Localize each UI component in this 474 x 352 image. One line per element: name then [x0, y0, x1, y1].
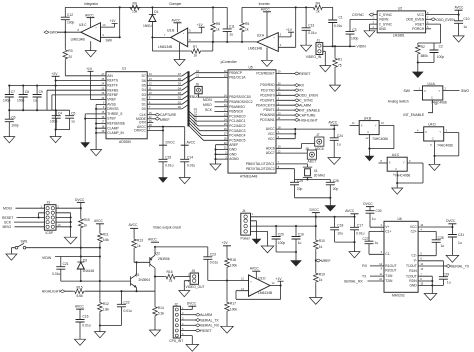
- node SWO flag: [44, 31, 49, 34]
- svg-text:74HC4066: 74HC4066: [431, 100, 447, 104]
- svg-text:100p: 100p: [67, 21, 75, 25]
- wire J6 to PB2: [199, 94, 229, 97]
- wire RSET to R2/C2: [418, 24, 441, 50]
- ground R17: [221, 326, 234, 333]
- ground C14: [179, 178, 190, 184]
- wire XTAL2 node: [276, 169, 330, 180]
- capacitor C29: [418, 261, 443, 286]
- wire U4:C Y wrap: [397, 163, 423, 183]
- wire U4:D Y wrap: [435, 133, 459, 156]
- node C_SYNC flag: [276, 99, 296, 101]
- wire U3:D feedback: [236, 286, 281, 300]
- svg-text:100p: 100p: [278, 241, 286, 245]
- svg-text:0.01u: 0.01u: [308, 31, 316, 35]
- IC U1 AD9280: [106, 72, 147, 139]
- svg-text:SWI: SWI: [106, 39, 112, 43]
- svg-text:J4: J4: [242, 209, 246, 213]
- capacitor C17: [350, 227, 359, 230]
- node SERIAL_TX flag (U6): [418, 265, 447, 267]
- capacitor C21: [60, 257, 62, 282]
- node ODD_EVEN flag: [276, 94, 296, 96]
- svg-text:SERIAL_TX: SERIAL_TX: [200, 318, 219, 322]
- svg-text:GND: GND: [229, 152, 237, 156]
- svg-text:AVCC: AVCC: [129, 223, 139, 227]
- svg-text:100p: 100p: [3, 98, 11, 102]
- wire R4 to C1: [324, 7, 333, 20]
- svg-text:U6: U6: [398, 217, 402, 221]
- wire U2 VCC: [426, 14, 459, 16]
- resistor R5: [241, 7, 243, 42]
- svg-text:C22: C22: [124, 301, 130, 305]
- svg-text:CSYNC: CSYNC: [352, 13, 364, 17]
- wire REFTS: [56, 80, 106, 82]
- svg-text:R9: R9: [133, 2, 137, 6]
- wire bottom rail of cap bank: [9, 109, 69, 111]
- wire AREF/GND/GND/AGND to ground: [216, 145, 229, 164]
- svg-text:5.6k: 5.6k: [103, 238, 110, 242]
- svg-text:R1OUT: R1OUT: [385, 264, 396, 268]
- svg-text:REFTF: REFTF: [107, 84, 118, 88]
- svg-text:PB0/ICP: PB0/ICP: [229, 71, 242, 75]
- svg-text:DVCC: DVCC: [310, 208, 320, 212]
- svg-text:DEBUG: DEBUG: [187, 95, 199, 99]
- svg-text:5.6k: 5.6k: [77, 294, 84, 298]
- wire REFBS: [47, 90, 106, 110]
- svg-text:J5: J5: [192, 269, 196, 273]
- wire vertical R11 column: [99, 248, 101, 281]
- svg-text:AIN: AIN: [107, 74, 113, 78]
- svg-text:1k: 1k: [319, 245, 323, 249]
- svg-text:C_SYNC: C_SYNC: [379, 22, 393, 26]
- wire clamper output: [152, 36, 170, 38]
- capacitor C7: [8, 86, 10, 111]
- svg-text:VIDEO_OUT: VIDEO_OUT: [186, 285, 205, 289]
- wire feedback vertical to pin9: [119, 7, 121, 37]
- wire U3:D output: [270, 285, 281, 287]
- wire U4:B X stub: [350, 124, 360, 126]
- svg-text:C8: C8: [25, 90, 29, 94]
- ground R14: [150, 330, 161, 336]
- switch U4:D 74HC4066: [424, 127, 444, 141]
- svg-text:MREF: MREF: [160, 118, 170, 122]
- svg-text:CLAMP: CLAMP: [107, 126, 119, 130]
- ground op-amp U3:C: [90, 41, 92, 50]
- svg-text:+2V: +2V: [222, 241, 229, 245]
- svg-text:Y: Y: [375, 124, 377, 128]
- node SWO flag (switch output): [443, 90, 460, 92]
- svg-text:20p: 20p: [333, 187, 339, 191]
- svg-text:C5: C5: [71, 112, 75, 116]
- resistor R3: [64, 32, 66, 76]
- wire collector to R16: [155, 276, 165, 278]
- svg-text:INT_ENABLE: INT_ENABLE: [299, 109, 320, 113]
- svg-text:X: X: [424, 89, 426, 93]
- svg-text:LM6134B: LM6134B: [248, 46, 263, 50]
- svg-text:C30: C30: [376, 209, 382, 213]
- svg-text:LM1881: LM1881: [393, 34, 405, 38]
- wire top rail segment A: [65, 6, 227, 8]
- wire U6 T2OUT/R2IN/GND to ground: [418, 276, 432, 293]
- svg-text:1k: 1k: [137, 244, 141, 248]
- node HIGHLIGHT flag: [276, 119, 296, 121]
- svg-text:AGND: AGND: [229, 157, 239, 161]
- svg-text:AVCC: AVCC: [261, 7, 271, 11]
- svg-text:SERIAL_RX: SERIAL_RX: [344, 279, 363, 283]
- svg-text:PD6/AIN0: PD6/AIN0: [260, 113, 275, 117]
- svg-text:VCC: VCC: [417, 13, 425, 17]
- svg-text:2N3904: 2N3904: [139, 278, 151, 282]
- capacitor C16: [76, 320, 85, 323]
- svg-text:1u: 1u: [33, 98, 37, 102]
- wire J1 shield to ground: [323, 51, 326, 65]
- wire R12/C22 bottoms: [100, 326, 122, 332]
- svg-text:R14: R14: [158, 306, 164, 310]
- svg-text:D5: D5: [142, 84, 146, 88]
- svg-text:U4:A: U4:A: [428, 82, 436, 86]
- svg-text:AVCC: AVCC: [266, 127, 276, 131]
- svg-text:R2: R2: [421, 45, 425, 49]
- svg-text:Y: Y: [439, 89, 441, 93]
- svg-text:R1IN: R1IN: [409, 269, 417, 273]
- wire DVCC rail: [251, 216, 355, 218]
- svg-text:C1-: C1-: [385, 252, 390, 256]
- svg-text:REFSENSE: REFSENSE: [107, 122, 126, 126]
- svg-text:-: -: [95, 37, 96, 40]
- svg-text:RESET: RESET: [2, 216, 13, 220]
- ground R19b: [310, 298, 323, 305]
- svg-text:C_SYNC: C_SYNC: [379, 13, 393, 17]
- svg-text:U1: U1: [122, 67, 126, 71]
- svg-text:MOSI: MOSI: [203, 98, 212, 102]
- svg-text:AVCC: AVCC: [328, 120, 338, 124]
- svg-text:C17: C17: [357, 223, 363, 227]
- resistor R10: [314, 239, 319, 251]
- op-amp U3:D LM6134B: [249, 275, 271, 296]
- power +1V (output): [280, 281, 282, 285]
- svg-text:R4: R4: [316, 2, 320, 6]
- node MREF flag (U1 MODE): [147, 118, 155, 120]
- svg-text:1u: 1u: [375, 241, 379, 245]
- svg-text:C: C: [432, 137, 434, 141]
- svg-text:1u: 1u: [441, 244, 445, 248]
- svg-text:0.01u: 0.01u: [52, 272, 60, 276]
- svg-text:R15: R15: [77, 285, 83, 289]
- svg-text:R10: R10: [319, 239, 325, 243]
- svg-text:100p: 100p: [437, 55, 445, 59]
- svg-text:PD2/INT0: PD2/INT0: [260, 93, 275, 97]
- svg-text:V-: V-: [414, 259, 417, 263]
- wire Q1 base row: [61, 280, 131, 282]
- wire top rail segment B: [242, 6, 312, 8]
- svg-text:PORCH: PORCH: [412, 27, 425, 31]
- svg-text:RESET: RESET: [200, 329, 211, 333]
- svg-text:C28: C28: [438, 236, 444, 240]
- svg-text:C1: C1: [339, 16, 343, 20]
- svg-text:1u: 1u: [447, 280, 451, 284]
- jack J8 ADC7: [276, 152, 307, 154]
- svg-text:AVCC: AVCC: [85, 13, 95, 17]
- IC U6 MAX202: [384, 221, 418, 292]
- switch U4:A 74HC4066: [423, 86, 443, 100]
- connector J6 DEBUG: [195, 86, 202, 93]
- wire SW1 row: [26, 247, 100, 249]
- svg-text:C13: C13: [308, 24, 314, 28]
- svg-text:D1: D1: [142, 102, 146, 106]
- ground J3: [64, 237, 77, 244]
- svg-text:R6: R6: [216, 22, 220, 26]
- node RESET flag: [276, 73, 296, 75]
- svg-text:REFTS: REFTS: [107, 79, 119, 83]
- wire +2V vertical: [55, 76, 57, 129]
- wire bus to PC0-PC5: [189, 111, 229, 141]
- svg-text:D3: D3: [142, 93, 146, 97]
- wire C3 to U2 VID/IN: [350, 18, 377, 20]
- svg-text:PD1/TXD: PD1/TXD: [261, 88, 276, 92]
- bus spine: [187, 71, 189, 126]
- svg-text:15k: 15k: [132, 10, 138, 14]
- capacitor C25: [294, 180, 296, 198]
- wire C4/C5 bottoms: [56, 130, 70, 137]
- svg-text:C23: C23: [210, 253, 216, 257]
- svg-text:R19: R19: [319, 272, 325, 276]
- svg-text:PB1/OC1A: PB1/OC1A: [229, 76, 246, 80]
- svg-text:Y: Y: [439, 130, 441, 134]
- node CAPTURE flag (U1 CLK): [147, 114, 155, 116]
- svg-text:PB4/MISO: PB4/MISO: [229, 105, 245, 109]
- svg-text:C27: C27: [363, 237, 369, 241]
- svg-text:Inverter: Inverter: [259, 2, 271, 6]
- wire OTR stub: [147, 122, 153, 124]
- jack J7 ADC6: [276, 144, 315, 149]
- svg-text:TX: TX: [299, 89, 304, 93]
- wire crystal cap ground: [295, 198, 331, 206]
- svg-text:MOSI: MOSI: [3, 207, 12, 211]
- connector J4 Power: [241, 213, 251, 235]
- svg-text:RSET: RSET: [415, 22, 424, 26]
- svg-text:Clamper: Clamper: [169, 2, 182, 6]
- svg-text:DVCC: DVCC: [363, 202, 373, 206]
- svg-text:U4:C: U4:C: [392, 153, 400, 157]
- svg-text:X: X: [389, 160, 391, 164]
- capacitor C13: [305, 7, 307, 45]
- svg-text:U2: U2: [398, 7, 402, 11]
- svg-text:J3: J3: [47, 201, 51, 205]
- node TX flag: [276, 89, 296, 91]
- svg-text:U3:B: U3:B: [167, 28, 175, 32]
- diode D2 1N4148: [77, 248, 84, 281]
- svg-text:C25: C25: [297, 179, 303, 183]
- capacitor C4: [55, 110, 57, 129]
- svg-text:2N3906: 2N3906: [158, 257, 170, 261]
- svg-text:CLAMP_IN: CLAMP_IN: [107, 131, 124, 135]
- svg-text:75: 75: [338, 64, 342, 68]
- resistor R12: [99, 281, 101, 325]
- svg-text:D2: D2: [142, 98, 146, 102]
- svg-text:PC3/ADC3: PC3/ADC3: [229, 129, 245, 133]
- node CAPTURE flag: [276, 114, 296, 116]
- svg-text:0.01u: 0.01u: [124, 309, 132, 313]
- svg-text:U3:C: U3:C: [79, 23, 87, 27]
- IC U2 LM1881: [377, 11, 425, 33]
- svg-text:U4:B: U4:B: [364, 116, 372, 120]
- resistor R6: [212, 7, 214, 42]
- resistor R11: [98, 232, 103, 244]
- svg-text:C14: C14: [187, 156, 193, 160]
- svg-text:C2-: C2-: [411, 254, 416, 258]
- svg-text:RX: RX: [299, 84, 304, 88]
- ground U5: [210, 164, 221, 170]
- svg-text:0.01u: 0.01u: [187, 163, 195, 167]
- resistor R7: [190, 49, 202, 54]
- svg-text:1k: 1k: [84, 224, 88, 228]
- capacitor C5: [69, 110, 71, 129]
- wire SWO to op-amp output: [57, 31, 81, 33]
- capacitor C6: [8, 110, 10, 136]
- ground U4:D: [429, 164, 440, 170]
- svg-text:ODD_EVEN: ODD_EVEN: [299, 94, 318, 98]
- node output junction: [151, 36, 153, 38]
- svg-text:µController: µController: [221, 60, 238, 64]
- svg-text:D6: D6: [142, 79, 146, 83]
- svg-text:100k: 100k: [230, 264, 238, 268]
- ground U1 digital: [81, 143, 89, 148]
- capacitor C30: [366, 211, 375, 214]
- svg-text:SWO: SWO: [461, 89, 469, 93]
- svg-text:MISO: MISO: [203, 103, 212, 107]
- svg-text:+1V: +1V: [197, 23, 204, 27]
- svg-text:1k: 1k: [216, 28, 220, 32]
- node ALARM flag: [276, 104, 296, 106]
- wire J3 pin3 link: [39, 213, 45, 218]
- svg-text:LM6134B: LM6134B: [71, 38, 86, 42]
- ground C16: [75, 339, 86, 345]
- svg-text:Integrator: Integrator: [84, 2, 99, 6]
- svg-text:PD4/XCK/T0: PD4/XCK/T0: [256, 103, 275, 107]
- svg-text:C6: C6: [11, 115, 15, 119]
- svg-text:VIDEO_IN: VIDEO_IN: [306, 55, 322, 59]
- ground J4 pin2: [252, 239, 260, 244]
- node Q2 collector junction: [154, 276, 156, 278]
- svg-text:ADC7: ADC7: [308, 159, 317, 163]
- capacitor C18: [334, 217, 336, 242]
- svg-text:ICSP: ICSP: [46, 231, 54, 235]
- capacitor C27: [369, 232, 384, 255]
- svg-text:Q2: Q2: [156, 251, 161, 255]
- svg-text:AD9280: AD9280: [119, 140, 131, 144]
- svg-text:SERIAL_RX: SERIAL_RX: [200, 324, 219, 328]
- svg-text:ALARM: ALARM: [299, 104, 311, 108]
- svg-text:PC4/ADC4: PC4/ADC4: [229, 134, 245, 138]
- svg-text:DRVSS: DRVSS: [107, 107, 119, 111]
- switch U4:C 74HC4066: [387, 157, 407, 171]
- svg-text:PC0/ADC0: PC0/ADC0: [229, 114, 245, 118]
- svg-text:AVCC: AVCC: [345, 209, 355, 213]
- resistor R19: [79, 218, 84, 230]
- ground C24: [328, 158, 341, 165]
- svg-text:C: C: [367, 130, 369, 134]
- svg-text:VCC: VCC: [268, 137, 276, 141]
- svg-text:LM6134B: LM6134B: [158, 45, 173, 49]
- wire J3 right grounds: [56, 213, 71, 237]
- node RX flag: [276, 84, 296, 86]
- node ALARM flag: [181, 314, 197, 316]
- resistor R16: [165, 274, 177, 279]
- svg-text:1u: 1u: [71, 120, 75, 124]
- resistor R14: [153, 305, 158, 317]
- svg-text:0.01u: 0.01u: [334, 24, 342, 28]
- capacitor C10: [454, 21, 463, 24]
- svg-text:HIGHLIGHT: HIGHLIGHT: [42, 290, 60, 294]
- svg-text:C1+: C1+: [385, 229, 391, 233]
- svg-text:ADC6: ADC6: [266, 146, 275, 150]
- svg-text:C: C: [431, 96, 433, 100]
- svg-text:0.01u: 0.01u: [165, 163, 173, 167]
- svg-text:R3: R3: [68, 49, 72, 53]
- svg-text:PB2/SS/OC1B: PB2/SS/OC1B: [229, 95, 251, 99]
- node MREF flag: [315, 259, 317, 261]
- svg-text:AVCC: AVCC: [94, 219, 104, 223]
- svg-text:1.8k: 1.8k: [103, 307, 110, 311]
- wire U1 AVCC/DRVCC: [147, 127, 185, 160]
- svg-text:20p: 20p: [297, 187, 303, 191]
- svg-text:TX: TX: [362, 275, 367, 279]
- svg-text:R18: R18: [230, 258, 236, 262]
- switch U4:B 74HC4066: [359, 121, 379, 135]
- svg-text:R17: R17: [230, 302, 236, 306]
- svg-text:680k: 680k: [421, 54, 429, 58]
- svg-text:D7: D7: [142, 74, 146, 78]
- wire U4:C X stub: [379, 162, 388, 164]
- svg-text:R5: R5: [245, 22, 249, 26]
- svg-text:CAPTURE: CAPTURE: [160, 113, 177, 117]
- svg-text:PB7/XTAL2/TOSC2: PB7/XTAL2/TOSC2: [246, 167, 275, 171]
- svg-text:1N4148: 1N4148: [83, 269, 95, 273]
- svg-text:Y: Y: [403, 160, 405, 164]
- crystal X1: [276, 164, 312, 180]
- svg-text:CPU_INT: CPU_INT: [169, 339, 183, 343]
- svg-text:GND: GND: [379, 27, 387, 31]
- svg-text:1k: 1k: [245, 28, 249, 32]
- capacitor C11: [226, 7, 228, 42]
- op-amp U3:B LM6134B: [171, 28, 188, 47]
- svg-text:R11: R11: [103, 233, 109, 237]
- wire C23 to op-amp: [208, 280, 249, 282]
- svg-text:1k: 1k: [194, 54, 198, 58]
- connector J3 ICSP: [44, 205, 56, 231]
- ground U1 analog: [91, 150, 102, 156]
- svg-text:ALARM: ALARM: [200, 313, 212, 317]
- wire REFTF rail: [9, 85, 106, 87]
- svg-text:0.01u: 0.01u: [82, 323, 90, 327]
- svg-text:ODD_EVEN: ODD_EVEN: [406, 18, 425, 22]
- ground op-amp U3:A: [266, 48, 268, 61]
- wire C18 bottom join: [335, 241, 355, 243]
- svg-text:T2OUT: T2OUT: [406, 274, 417, 278]
- capacitor C3: [349, 19, 351, 46]
- capacitor C1: [328, 20, 337, 23]
- ground op-amp U3:B: [179, 43, 181, 60]
- svg-text:R13: R13: [137, 238, 143, 242]
- svg-text:+1V: +1V: [110, 19, 117, 23]
- resistor R19b: [314, 272, 319, 284]
- capacitor C12: [64, 7, 66, 32]
- svg-text:C11: C11: [229, 25, 235, 29]
- svg-text:1N914: 1N914: [143, 24, 153, 28]
- ground U6: [424, 294, 437, 301]
- svg-text:SERIAL_TX: SERIAL_TX: [451, 265, 470, 269]
- svg-text:REFBS: REFBS: [107, 88, 119, 92]
- node ODD_EVEN flag: [426, 18, 432, 20]
